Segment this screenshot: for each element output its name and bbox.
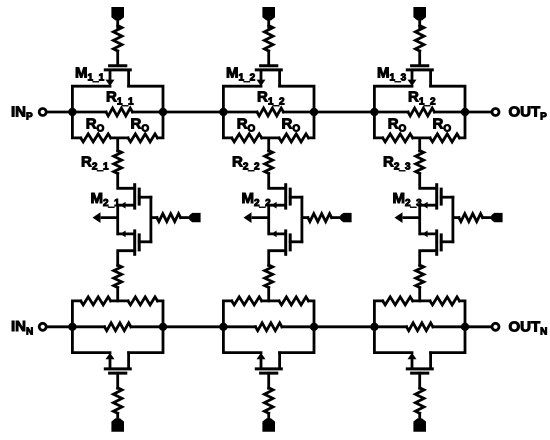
transistor bottom column 1 source terminal with up arrow — [106, 353, 115, 369]
wire bottom-box bottom edge right — [129, 327, 163, 353]
wire bottom edge right — [460, 112, 466, 138]
wire common source line — [116, 205, 119, 234]
wire — [418, 413, 421, 420]
wire — [465, 111, 492, 114]
svg-text:R2_1: R2_1 — [81, 153, 109, 172]
resistor R1_2 — [257, 108, 283, 116]
transistor M2_2a source wire with left arrow — [269, 202, 286, 209]
node left column 2 (bottom) — [219, 323, 227, 331]
svg-text:R2_2: R2_2 — [232, 153, 260, 172]
transistor M2_1b source wire with left arrow — [118, 231, 135, 238]
resistor RO left column 3 — [383, 134, 413, 142]
svg-text:RO: RO — [433, 115, 452, 134]
wire common gate line — [300, 197, 303, 242]
wire common gate line — [451, 197, 454, 242]
svg-text:RO: RO — [237, 115, 256, 134]
svg-text:R1_1: R1_1 — [106, 88, 134, 107]
svg-text:M2_3: M2_3 — [393, 190, 423, 209]
transistor M1_2 drain terminal — [278, 70, 281, 88]
label OUTP — [509, 104, 548, 123]
label R2_3 — [383, 153, 411, 172]
terminal OUTP — [492, 109, 499, 116]
wire — [418, 19, 421, 28]
transistor M2_1a gate bar — [138, 188, 141, 206]
wire — [418, 373, 421, 388]
transistor bottom column 2 channel bar — [255, 367, 283, 370]
svg-text:M1_1: M1_1 — [75, 65, 105, 84]
wire — [262, 136, 279, 139]
transistor M2_1b gate wire — [139, 240, 151, 243]
resistor bottom-box upper-right column 1 — [128, 297, 158, 305]
transistor M2_1a gate wire — [139, 196, 151, 199]
wire — [116, 373, 119, 388]
node right column 1 (top) — [159, 108, 167, 116]
wire top edge right — [129, 86, 163, 112]
resistor bottom gate-bias column 1 — [113, 388, 122, 414]
wire — [163, 325, 223, 328]
label M1_2 — [226, 65, 256, 84]
transistor M2_1b gate bar — [138, 233, 141, 251]
wire — [262, 299, 279, 302]
wire — [282, 325, 314, 328]
resistor top gate-bias column 2 — [264, 26, 273, 52]
left output arrow column 3 — [395, 212, 420, 223]
label M1_1 — [75, 65, 105, 84]
wire — [267, 51, 270, 64]
power terminal P3 (top bias square) — [413, 7, 426, 20]
wire — [269, 174, 286, 189]
wire — [332, 216, 342, 219]
resistor bottom-box middle column 2 — [256, 323, 282, 331]
resistor R2_3 — [416, 151, 424, 174]
transistor M2_3b gate bar — [440, 233, 443, 251]
transistor M2_2b source wire with left arrow — [269, 231, 286, 238]
terminal INP — [39, 109, 46, 116]
svg-text:RO: RO — [388, 115, 407, 134]
resistor bottom gate-bias column 3 — [415, 388, 424, 414]
transistor M1_1 gate bar — [108, 64, 127, 67]
wire — [111, 299, 128, 302]
wire — [116, 138, 119, 151]
transistor M2_2a gate wire — [290, 196, 302, 199]
wire bottom edge right — [309, 112, 315, 138]
svg-text:RO: RO — [282, 115, 301, 134]
transistor M2_1a source wire with left arrow — [118, 202, 135, 209]
terminal OUTN — [492, 323, 499, 330]
wire bottom-box top edge right — [460, 301, 466, 327]
label INP — [11, 103, 33, 122]
wire bottom-box top edge left — [223, 301, 231, 327]
transistor M1_3 source terminal with down arrow — [408, 70, 417, 86]
wire — [418, 51, 421, 64]
wire — [118, 174, 135, 189]
wire top edge left — [72, 86, 110, 112]
resistor R2_1 — [114, 151, 122, 174]
svg-text:R1_2: R1_2 — [408, 88, 436, 107]
svg-text:RO: RO — [86, 115, 105, 134]
wire — [47, 325, 73, 328]
wire — [116, 51, 119, 64]
node right column 2 (top) — [310, 108, 318, 116]
svg-text:RO: RO — [131, 115, 150, 134]
wire bottom-box bottom edge right — [431, 327, 465, 353]
wire bottom-box top edge left — [374, 301, 382, 327]
resistor lower-middle column 3 — [416, 265, 424, 288]
transistor M1_3 drain terminal — [429, 70, 432, 88]
wire — [483, 216, 493, 219]
label M2_3 — [393, 190, 423, 209]
transistor M2_2b channel bar — [284, 229, 287, 255]
wire bottom-box bottom edge left — [223, 327, 261, 353]
label R2_1 — [81, 153, 109, 172]
resistor bottom-box upper-right column 3 — [430, 297, 460, 305]
wire — [132, 111, 163, 114]
transistor M2_3b gate wire — [441, 240, 453, 243]
wire bottom edge left — [223, 112, 231, 138]
resistor M2 gate-bias column 3 — [459, 214, 483, 222]
node right column 3 (top) — [461, 108, 469, 116]
wire — [418, 138, 421, 151]
wire top edge left — [374, 86, 412, 112]
wire — [181, 216, 191, 219]
transistor bottom column 1 drain terminal — [127, 351, 130, 369]
transistor M1_3 gate bar — [410, 64, 429, 67]
label M2_1 — [91, 190, 121, 209]
wire — [374, 111, 408, 114]
transistor bottom column 2 drain terminal — [278, 351, 281, 369]
node right column 1 (bottom) — [159, 323, 167, 331]
power terminal N3 (bottom bias square) — [413, 418, 426, 431]
transistor bottom column 3 channel bar — [406, 367, 434, 370]
power terminal N2 (bottom bias square) — [262, 418, 275, 431]
wire — [223, 325, 255, 328]
wire — [151, 216, 157, 219]
label R1_2 — [257, 88, 285, 107]
bias terminal square column 2 (middle) — [340, 213, 351, 222]
node left column 3 (bottom) — [370, 323, 378, 331]
wire — [72, 325, 104, 328]
wire bottom-box bottom edge right — [280, 327, 314, 353]
label INN — [11, 318, 33, 337]
transistor M1_2 gate bar — [259, 64, 278, 67]
wire — [374, 325, 406, 328]
label RO right column 2 — [282, 115, 301, 134]
resistor bottom-box middle column 1 — [105, 323, 131, 331]
label RO right column 3 — [433, 115, 452, 134]
resistor RO left column 1 — [81, 134, 111, 142]
transistor M1_2 channel bar — [255, 68, 283, 71]
wire bottom-box top edge right — [309, 301, 315, 327]
transistor bottom column 3 drain terminal — [429, 351, 432, 369]
transistor M1_1 drain terminal — [127, 70, 130, 88]
terminal INN — [39, 323, 46, 330]
wire top edge right — [431, 86, 465, 112]
bias terminal square column 3 (middle) — [491, 213, 502, 222]
transistor M2_3b source wire with left arrow — [420, 231, 437, 238]
resistor bottom-box middle column 3 — [407, 323, 433, 331]
label M2_2 — [242, 190, 272, 209]
wire — [434, 111, 465, 114]
wire — [116, 288, 119, 301]
transistor M2_1a channel bar — [133, 183, 136, 209]
transistor M2_3a source wire with left arrow — [420, 202, 437, 209]
resistor bottom-box upper-right column 2 — [279, 297, 309, 305]
label R1_2 — [408, 88, 436, 107]
transistor M2_3a channel bar — [435, 183, 438, 209]
resistor R2_2 — [265, 151, 273, 174]
svg-text:M2_2: M2_2 — [242, 190, 272, 209]
transistor bottom column 1 gate bar — [108, 372, 127, 375]
transistor M2_2b gate wire — [290, 240, 302, 243]
resistor RO right column 1 — [128, 134, 158, 142]
wire — [465, 325, 492, 328]
wire — [131, 325, 163, 328]
label RO left column 3 — [388, 115, 407, 134]
wire — [453, 216, 459, 219]
resistor lower-middle column 1 — [114, 265, 122, 288]
wire — [47, 111, 73, 114]
resistor bottom-box upper-left column 3 — [383, 297, 413, 305]
transistor M2_2a gate bar — [289, 188, 292, 206]
wire — [223, 111, 257, 114]
node left column 1 (top) — [68, 108, 76, 116]
wire — [267, 19, 270, 28]
wire bottom edge right — [158, 112, 164, 138]
resistor M2 gate-bias column 1 — [157, 214, 181, 222]
transistor M2_3b channel bar — [435, 229, 438, 255]
wire — [413, 136, 430, 139]
label M1_3 — [377, 65, 407, 84]
svg-text:OUTN: OUTN — [509, 318, 548, 337]
node right column 3 (bottom) — [461, 323, 469, 331]
transistor M2_1b drain wire — [118, 251, 135, 266]
transistor M2_1b channel bar — [133, 229, 136, 255]
label R2_2 — [232, 153, 260, 172]
resistor bottom gate-bias column 2 — [264, 388, 273, 414]
resistor top gate-bias column 3 — [415, 26, 424, 52]
bias terminal square column 1 (middle) — [189, 213, 200, 222]
resistor lower-middle column 2 — [265, 265, 273, 288]
wire — [314, 325, 374, 328]
transistor M2_2a channel bar — [284, 183, 287, 209]
wire — [302, 216, 308, 219]
node left column 2 (top) — [219, 108, 227, 116]
transistor bottom column 2 source terminal with up arrow — [257, 353, 266, 369]
transistor M2_2b gate bar — [289, 233, 292, 251]
wire common source line — [267, 205, 270, 234]
transistor bottom column 1 channel bar — [104, 367, 132, 370]
svg-text:R1_2: R1_2 — [257, 88, 285, 107]
wire — [267, 138, 270, 151]
wire bottom edge left — [72, 112, 80, 138]
power terminal P1 (top bias square) — [111, 7, 124, 20]
wire bottom-box bottom edge left — [374, 327, 412, 353]
resistor bottom-box upper-left column 1 — [81, 297, 111, 305]
wire — [283, 111, 314, 114]
svg-text:M1_3: M1_3 — [377, 65, 407, 84]
transistor M1_1 channel bar — [104, 68, 132, 71]
label RO left column 2 — [237, 115, 256, 134]
resistor RO right column 3 — [430, 134, 460, 142]
transistor M1_1 source terminal with down arrow — [106, 70, 115, 86]
power terminal N1 (bottom bias square) — [111, 418, 124, 431]
svg-text:INP: INP — [11, 103, 33, 122]
wire — [267, 373, 270, 388]
transistor bottom column 3 source terminal with up arrow — [408, 353, 417, 369]
resistor bottom-box upper-left column 2 — [232, 297, 262, 305]
wire bottom-box top edge right — [158, 301, 164, 327]
svg-text:M2_1: M2_1 — [91, 190, 121, 209]
label R1_1 — [106, 88, 134, 107]
wire — [420, 174, 437, 189]
transistor bottom column 3 gate bar — [410, 372, 429, 375]
label OUTN — [509, 318, 548, 337]
resistor M2 gate-bias column 2 — [308, 214, 332, 222]
wire — [116, 413, 119, 420]
label RO left column 1 — [86, 115, 105, 134]
wire common gate line — [149, 197, 152, 242]
svg-text:OUTP: OUTP — [509, 104, 548, 123]
wire — [267, 413, 270, 420]
transistor M2_3b drain wire — [420, 251, 437, 266]
wire — [72, 111, 106, 114]
transistor bottom column 2 gate bar — [259, 372, 278, 375]
transistor M2_3a gate wire — [441, 196, 453, 199]
wire — [267, 288, 270, 301]
wire — [314, 111, 374, 114]
wire — [163, 111, 223, 114]
svg-text:R2_3: R2_3 — [383, 153, 411, 172]
transistor M2_3a gate bar — [440, 188, 443, 206]
wire bottom-box top edge left — [72, 301, 80, 327]
wire — [413, 299, 430, 302]
label RO right column 1 — [131, 115, 150, 134]
node left column 1 (bottom) — [68, 323, 76, 331]
wire — [418, 288, 421, 301]
transistor M1_3 channel bar — [406, 68, 434, 71]
resistor RO right column 2 — [279, 134, 309, 142]
left output arrow column 2 — [244, 212, 269, 223]
wire bottom-box bottom edge left — [72, 327, 110, 353]
node left column 3 (top) — [370, 108, 378, 116]
resistor R1_1 — [106, 108, 132, 116]
left output arrow column 1 — [93, 212, 118, 223]
wire — [111, 136, 128, 139]
transistor M1_2 source terminal with down arrow — [257, 70, 266, 86]
wire top edge left — [223, 86, 261, 112]
wire — [116, 19, 119, 28]
resistor RO left column 2 — [232, 134, 262, 142]
transistor M2_2b drain wire — [269, 251, 286, 266]
svg-text:M1_2: M1_2 — [226, 65, 256, 84]
wire top edge right — [280, 86, 314, 112]
wire bottom edge left — [374, 112, 382, 138]
wire common source line — [418, 205, 421, 234]
wire — [433, 325, 465, 328]
node right column 2 (bottom) — [310, 323, 318, 331]
svg-text:INN: INN — [11, 318, 33, 337]
resistor top gate-bias column 1 — [113, 26, 122, 52]
resistor R1_2 — [408, 108, 434, 116]
power terminal P2 (top bias square) — [262, 7, 275, 20]
